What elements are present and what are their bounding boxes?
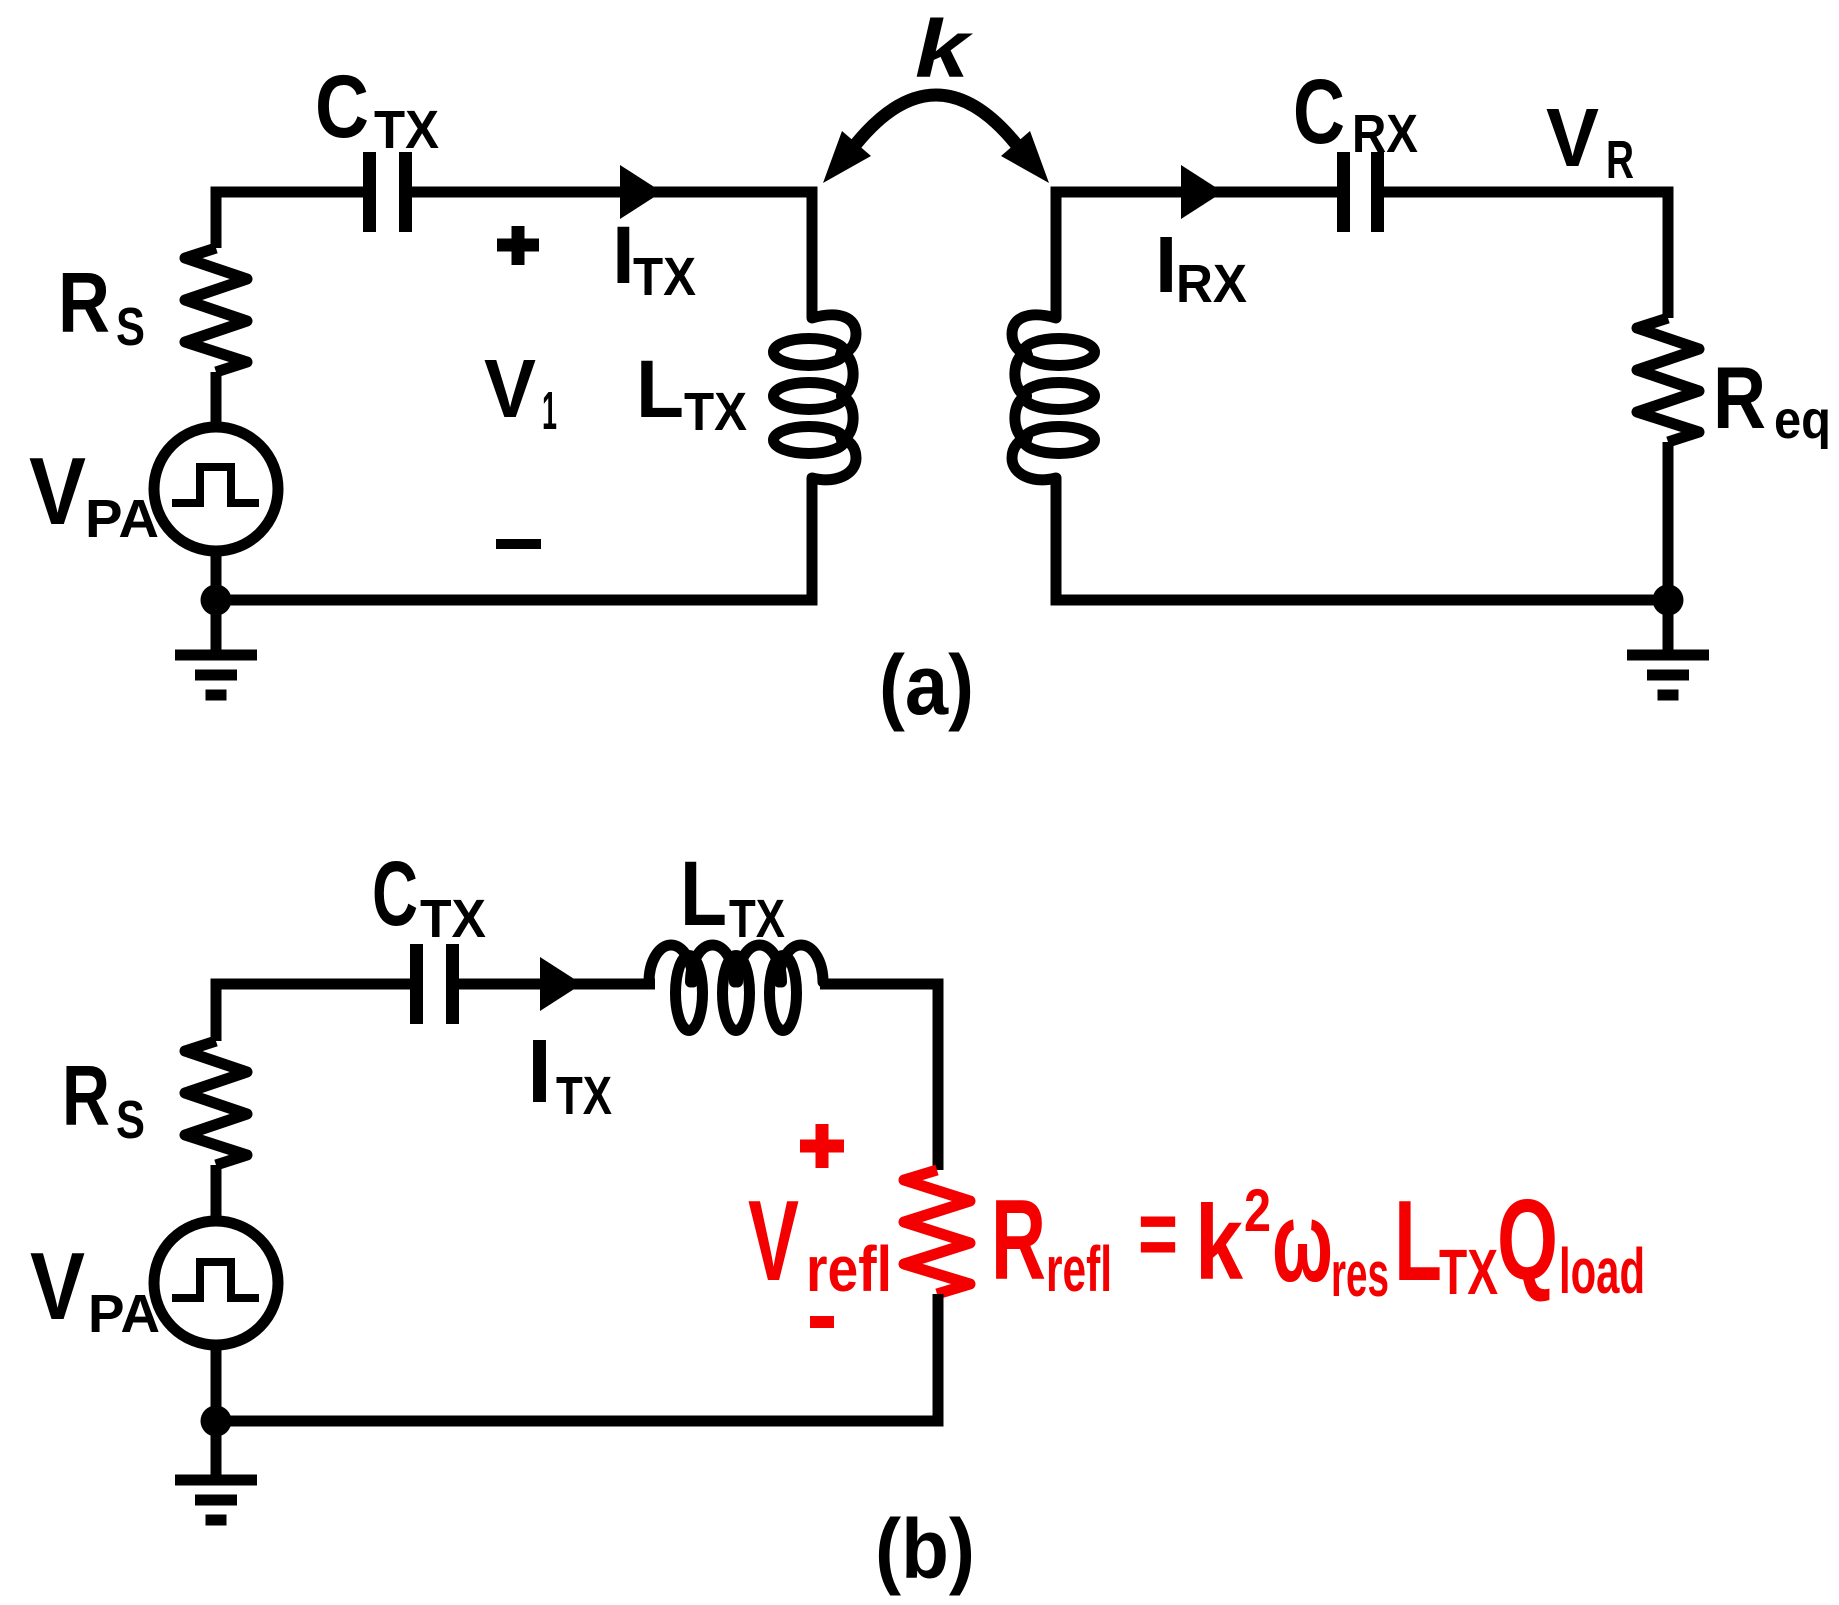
svg-text:C: C — [372, 843, 418, 945]
svg-text:TX: TX — [374, 100, 439, 160]
svg-text:load: load — [1559, 1235, 1645, 1307]
svg-text:ω: ω — [1272, 1179, 1333, 1306]
svg-text:TX: TX — [633, 247, 696, 307]
svg-text:S: S — [116, 297, 145, 357]
svg-text:eq: eq — [1774, 390, 1831, 450]
svg-text:refl: refl — [806, 1233, 892, 1305]
svg-text:I: I — [612, 210, 635, 301]
svg-text:R: R — [62, 1049, 110, 1144]
svg-text:PA: PA — [88, 1284, 160, 1344]
svg-text:TX: TX — [420, 889, 486, 949]
svg-text:(a): (a) — [879, 638, 974, 732]
svg-text:V: V — [748, 1178, 799, 1305]
svg-text:Q: Q — [1497, 1177, 1558, 1304]
svg-text:L: L — [1394, 1178, 1442, 1305]
svg-text:res: res — [1331, 1238, 1389, 1310]
svg-text:I: I — [1155, 220, 1177, 309]
svg-text:L: L — [636, 344, 684, 435]
svg-text:refl: refl — [1046, 1233, 1112, 1305]
svg-text:TX: TX — [556, 1066, 612, 1126]
svg-text:k: k — [915, 4, 974, 95]
svg-text:V: V — [484, 342, 536, 435]
svg-text:k: k — [1195, 1184, 1244, 1302]
svg-text:1: 1 — [542, 381, 557, 441]
svg-text:R: R — [1606, 130, 1634, 190]
svg-text:I: I — [527, 1022, 552, 1122]
svg-text:C: C — [1293, 61, 1345, 163]
svg-text:S: S — [116, 1090, 145, 1150]
svg-text:V: V — [30, 1233, 85, 1340]
svg-text:2: 2 — [1244, 1177, 1271, 1244]
svg-text:PA: PA — [85, 489, 159, 549]
svg-text:(b): (b) — [875, 1502, 975, 1596]
svg-text:C: C — [315, 56, 369, 156]
svg-text:=: = — [1138, 1180, 1178, 1287]
svg-text:V: V — [29, 438, 86, 545]
svg-text:V: V — [1546, 91, 1599, 184]
svg-text:RX: RX — [1352, 104, 1418, 164]
svg-text:TX: TX — [1439, 1236, 1498, 1308]
svg-text:L: L — [680, 843, 727, 945]
svg-text:TX: TX — [684, 382, 747, 442]
svg-text:TX: TX — [729, 889, 785, 949]
svg-text:R: R — [1713, 348, 1766, 447]
svg-text:RX: RX — [1176, 254, 1247, 314]
svg-text:R: R — [991, 1177, 1046, 1304]
svg-text:R: R — [58, 256, 110, 351]
